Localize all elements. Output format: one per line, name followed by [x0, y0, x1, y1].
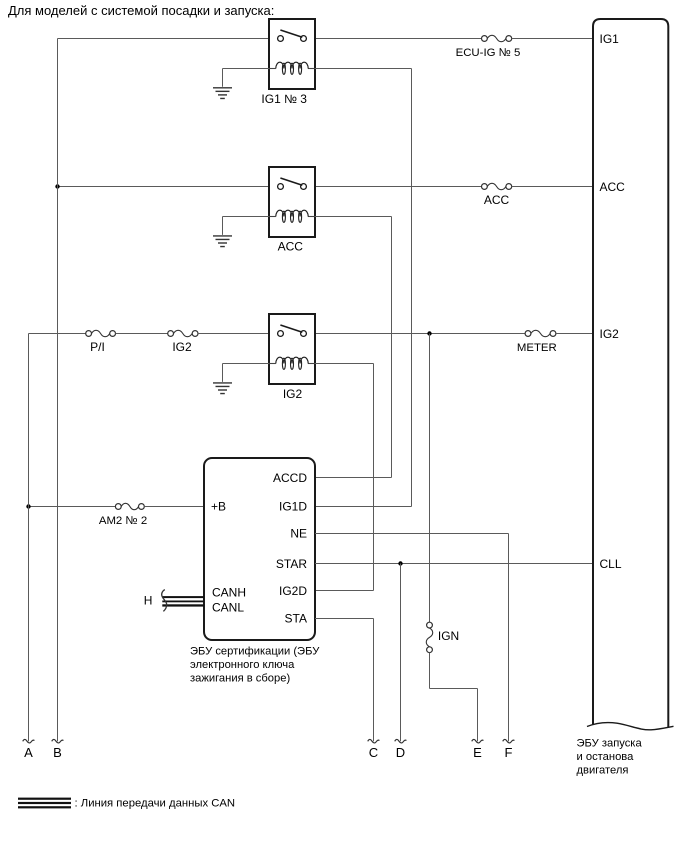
- junction node STAR/D: [398, 561, 402, 565]
- connector F breakaway: [503, 739, 515, 743]
- wire IGN branch upper: [429, 334, 431, 623]
- ground of relay ACC coil: [213, 236, 232, 247]
- svg-text:H: H: [144, 593, 153, 607]
- relay IG2: [269, 314, 315, 384]
- connector B breakaway: [52, 739, 64, 743]
- connector C breakaway: [368, 739, 380, 743]
- wire relay ACC coil to ACCD: right + vertical + pin stub: [315, 217, 392, 478]
- CAN break squiggle H: [162, 590, 167, 612]
- wire IG2 row segment to relay: [198, 333, 278, 335]
- relay ACC: [269, 167, 315, 237]
- ECU U1: certification ECU box: [204, 458, 315, 640]
- fuse IGN: [426, 622, 432, 652]
- svg-text:IG2: IG2: [600, 327, 620, 341]
- wire relay IG2 coil to ground: [223, 364, 270, 382]
- label ECU caption: [190, 646, 320, 685]
- fuse METER: [525, 330, 556, 336]
- fuse AM2 No.2: [115, 503, 144, 509]
- svg-text:В: В: [53, 745, 62, 760]
- fuse P/I: [86, 330, 116, 336]
- svg-text:ACC: ACC: [278, 240, 304, 254]
- svg-text:и останова: и останова: [577, 751, 635, 763]
- svg-text:А: А: [24, 745, 33, 760]
- svg-text:IG1D: IG1D: [279, 500, 307, 514]
- wire relay ACC coil to ground: [223, 217, 270, 235]
- wire ACC row right segment: [512, 186, 593, 188]
- ECU U2: engine start/stop ECU box: [587, 19, 674, 730]
- wire node to connector D: [400, 564, 402, 742]
- legend CAN line symbol: [18, 798, 71, 809]
- fuse IG2: [168, 330, 198, 336]
- relay IG1 No.3: [269, 19, 315, 89]
- svg-text:CANL: CANL: [212, 601, 244, 615]
- svg-text:P/I: P/I: [90, 340, 105, 354]
- svg-text:IG2: IG2: [172, 340, 192, 354]
- ground of relay IG2 coil: [213, 383, 232, 394]
- svg-text:STAR: STAR: [276, 557, 307, 571]
- junction dot B-ACC: [55, 184, 59, 188]
- wire IG2 row segment relay to METER fuse: [306, 333, 525, 335]
- svg-text:зажигания в сборе): зажигания в сборе): [190, 673, 290, 685]
- wire IG2 row right segment: [556, 333, 593, 335]
- wire IGN branch lower to connector E: [430, 653, 478, 742]
- svg-text:NE: NE: [290, 527, 307, 541]
- svg-text:: Линия передачи данных CAN: : Линия передачи данных CAN: [75, 798, 236, 810]
- wire ACC row middle segment: [306, 186, 481, 188]
- svg-text:ACC: ACC: [600, 180, 626, 194]
- svg-text:IG2D: IG2D: [279, 584, 307, 598]
- fuse ECU-IG No.5: [482, 35, 512, 41]
- wire +B row fuse to ECU: [144, 506, 204, 508]
- svg-text:CLL: CLL: [600, 557, 622, 571]
- svg-text:IGN: IGN: [438, 629, 459, 643]
- svg-text:IG2: IG2: [283, 387, 303, 401]
- svg-text:D: D: [396, 745, 405, 760]
- svg-text:Для моделей с системой посадки: Для моделей с системой посадки и запуска…: [8, 3, 274, 18]
- wire ACC row left segment: [58, 186, 278, 188]
- svg-text:АМ2 № 2: АМ2 № 2: [99, 515, 147, 527]
- svg-text:IG1 № 3: IG1 № 3: [261, 92, 307, 106]
- svg-text:METER: METER: [517, 342, 557, 354]
- junction node IGN branch: [427, 331, 431, 335]
- wire +B row from A riser to AM2 fuse: [29, 506, 116, 508]
- wire IG2 row segment P/I to IG2 fuse: [116, 333, 168, 335]
- ground of relay IG1 coil: [213, 88, 232, 99]
- svg-text:двигателя: двигателя: [577, 765, 629, 777]
- wire relay IG1 coil to IG1D: right + vertical + pin stub: [315, 69, 412, 507]
- wire IG1 row middle segment: [306, 38, 481, 40]
- svg-text:IG1: IG1: [600, 32, 620, 46]
- wire relay IG1 coil to ground: [223, 69, 270, 87]
- wire IG1 row right segment: [512, 38, 593, 40]
- wire STAR to CLL: [315, 563, 593, 565]
- svg-text:E: E: [473, 745, 482, 760]
- svg-text:CANH: CANH: [212, 585, 246, 599]
- fuse ACC: [482, 183, 512, 189]
- wire NE to connector F: [315, 534, 509, 742]
- connector E breakaway: [472, 739, 484, 743]
- connector D breakaway: [395, 739, 407, 743]
- svg-text:электронного ключа: электронного ключа: [190, 659, 295, 671]
- wire IG1 row left segment: [58, 38, 278, 40]
- CAN bus lines CANH/CANL: [162, 596, 204, 607]
- svg-text:F: F: [505, 745, 513, 760]
- svg-text:ECU-IG № 5: ECU-IG № 5: [456, 47, 521, 59]
- svg-text:C: C: [369, 745, 378, 760]
- wire relay IG2 coil to IG2D: right + vertical + pin stub: [315, 364, 374, 591]
- wire IG2 row segment from A riser to P/I fuse: [29, 333, 86, 335]
- wire riser B: [57, 39, 59, 742]
- label right box caption: [577, 738, 643, 777]
- svg-text:ЭБУ сертификации (ЭБУ: ЭБУ сертификации (ЭБУ: [190, 646, 320, 658]
- svg-text:ACC: ACC: [484, 193, 510, 207]
- wire STA to connector C: [315, 619, 374, 742]
- svg-text:STA: STA: [285, 612, 307, 626]
- svg-text:+B: +B: [211, 500, 226, 514]
- junction dot A riser / +B: [26, 504, 30, 508]
- connector A breakaway: [23, 739, 35, 743]
- wire riser A: [28, 334, 30, 742]
- svg-text:ACCD: ACCD: [273, 471, 307, 485]
- svg-text:ЭБУ запуска: ЭБУ запуска: [577, 738, 643, 750]
